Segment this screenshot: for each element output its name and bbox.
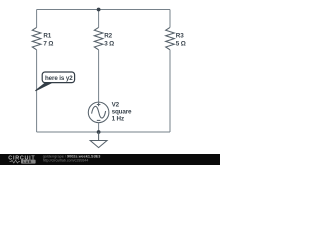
resistor R1: [32, 27, 41, 49]
wire left branch bottom lead: [36, 50, 38, 132]
node junction dot bottom: [97, 130, 101, 134]
svg-text:R1: R1: [43, 32, 51, 39]
resistor R3: [166, 27, 175, 49]
svg-text:square: square: [112, 109, 132, 116]
svg-text:http://circuitlab.com/c289344: http://circuitlab.com/c289344: [43, 159, 89, 163]
wire bottom rail: [37, 131, 170, 133]
svg-text:here is y2: here is y2: [45, 75, 73, 82]
svg-text:5 Ω: 5 Ω: [176, 40, 186, 47]
svg-text:3 Ω: 3 Ω: [104, 40, 114, 47]
svg-text:7 Ω: 7 Ω: [43, 40, 53, 47]
svg-text:LAB: LAB: [23, 160, 32, 164]
node junction dot top: [97, 8, 101, 12]
voltage source V2: [88, 102, 109, 123]
svg-text:V2: V2: [112, 101, 120, 108]
wire top rail: [37, 9, 170, 11]
wire middle branch top lead: [98, 10, 100, 28]
svg-text:R3: R3: [176, 32, 184, 39]
wire right branch bottom lead: [169, 50, 171, 132]
wire middle branch middle lead: [98, 50, 100, 102]
wire left branch top lead: [36, 10, 38, 28]
wire middle branch bottom lead: [98, 123, 100, 132]
logo LAB box: [21, 160, 36, 164]
watermark bar: [0, 154, 220, 165]
wire right branch top lead: [169, 10, 171, 28]
logo squiggle: [10, 160, 21, 163]
svg-text:R2: R2: [104, 32, 112, 39]
ground: [90, 132, 107, 148]
resistor R2: [94, 27, 103, 49]
annotation bubble "here is y2": [35, 83, 51, 91]
svg-text:1 Hz: 1 Hz: [112, 116, 124, 123]
